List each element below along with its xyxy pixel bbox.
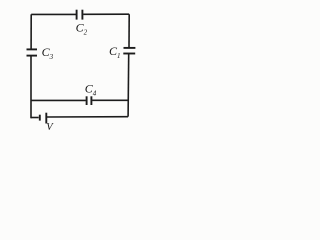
wire left vertical lower — [30, 56, 32, 119]
svg-text:C1: C1 — [109, 44, 121, 60]
svg-text:V: V — [46, 122, 54, 132]
wire right vertical upper — [128, 14, 130, 47]
battery V short plate — [39, 115, 41, 121]
wire inner bottom right segment — [92, 99, 128, 101]
wire inner bottom left segment — [31, 99, 86, 101]
battery V long plate — [45, 113, 47, 124]
svg-text:C2: C2 — [76, 21, 88, 37]
wire top left segment — [31, 13, 76, 15]
wire left vertical upper — [30, 14, 32, 49]
wire bottom — [47, 116, 128, 118]
capacitor C3 — [27, 49, 38, 55]
wire right vertical lower — [127, 54, 130, 117]
wire battery left lead — [31, 117, 39, 119]
wire top right segment — [83, 13, 129, 15]
svg-text:C4: C4 — [85, 81, 97, 97]
capacitor C4 — [87, 96, 92, 105]
capacitor C1 — [123, 48, 135, 54]
svg-text:C3: C3 — [42, 45, 54, 61]
capacitor C2 — [77, 10, 83, 20]
